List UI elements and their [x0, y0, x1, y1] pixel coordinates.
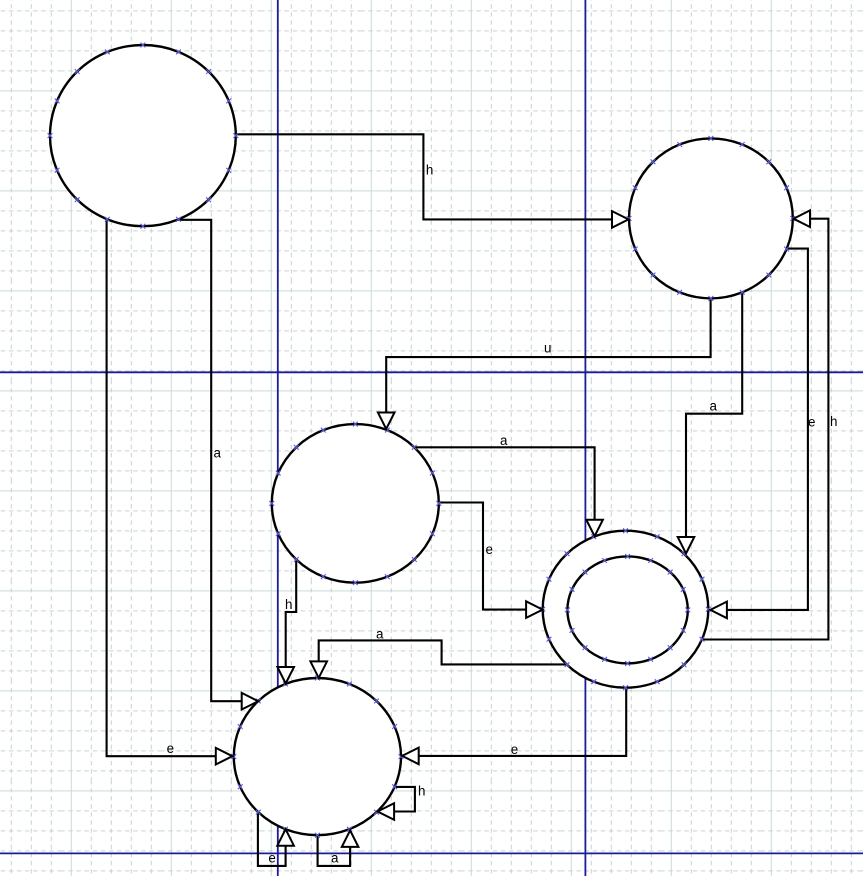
label h (A to B)	[426, 162, 433, 177]
wire: transition a B to D	[686, 292, 742, 537]
label u (B to C)	[544, 341, 551, 356]
svg-text:e: e	[486, 542, 493, 557]
label e (B to D)	[808, 415, 815, 430]
wire: transition u B to C	[386, 298, 710, 412]
arrowhead: transition e C to D	[526, 601, 543, 618]
state D inner circle	[565, 554, 690, 666]
svg-text:e: e	[808, 415, 815, 430]
arrowhead: transition a D to E	[310, 661, 327, 678]
label h (D to B)	[830, 414, 837, 429]
arrowhead: self-loop e on E	[277, 829, 294, 846]
page boundary horizontal line 1	[0, 371, 863, 373]
arrowhead: transition h C to E	[277, 667, 294, 684]
arrowhead: transition a B to D	[678, 537, 695, 554]
arrowhead: self-loop h on E	[378, 803, 395, 820]
label a (self-loop)	[331, 851, 339, 866]
wire: transition a C to D	[414, 447, 594, 519]
wire: transition h D to B (right side)	[703, 219, 829, 640]
label h (self-loop)	[418, 784, 425, 799]
svg-text:e: e	[268, 851, 275, 866]
arrowhead: transition h A to B	[612, 211, 629, 228]
label e (D to E)	[511, 742, 518, 757]
svg-text:a: a	[331, 851, 339, 866]
svg-text:e: e	[511, 742, 518, 757]
state A (top-left)	[48, 43, 239, 229]
svg-text:a: a	[376, 626, 384, 641]
wire: self-loop a on E	[318, 835, 351, 866]
svg-text:e: e	[167, 741, 174, 756]
label a (C to D)	[500, 433, 508, 448]
state E (bottom)	[231, 676, 403, 838]
label a (D to E)	[376, 626, 384, 641]
svg-text:h: h	[830, 414, 837, 429]
arrowhead: transition e B to D (right side)	[710, 602, 727, 619]
state D outer (accept, double circle)	[540, 528, 710, 690]
wire: transition a A to E	[178, 220, 241, 701]
label e (C to D)	[486, 542, 493, 557]
label a (A to E)	[214, 446, 222, 461]
wire: self-loop h on E	[395, 787, 415, 812]
wire: transition h A to B	[236, 134, 612, 219]
svg-text:a: a	[500, 433, 508, 448]
wire: self-loop e on E	[258, 812, 286, 866]
svg-text:a: a	[710, 399, 718, 414]
svg-text:a: a	[214, 446, 222, 461]
arrowhead: self-loop a on E	[342, 830, 359, 847]
arrowhead: transition a C to D	[586, 520, 603, 537]
wire: transition h C to E	[286, 560, 297, 667]
state C (middle)	[269, 422, 441, 585]
state B (top-right)	[627, 136, 796, 301]
label h (C to E)	[285, 597, 292, 612]
arrowhead: transition u B to C	[378, 413, 395, 430]
wire: transition e D to E	[419, 688, 626, 756]
arrowhead: transition e A to E	[216, 748, 233, 765]
page boundary horizontal line 2	[0, 852, 863, 854]
label e (A to E)	[167, 741, 174, 756]
wire: transition e C to D	[439, 503, 526, 610]
label e (self-loop)	[268, 851, 275, 866]
svg-text:h: h	[418, 784, 425, 799]
arrowhead: transition h D to B (right side)	[794, 210, 811, 227]
wire: transition e A to E	[107, 220, 216, 757]
svg-text:h: h	[426, 162, 433, 177]
wire: transition e B to D (right side)	[727, 249, 808, 610]
page boundary vertical line 1	[277, 0, 279, 876]
svg-text:u: u	[544, 341, 551, 356]
arrowhead: transition a A to E	[242, 693, 259, 710]
wire: transition a D to E	[319, 640, 566, 664]
arrowhead: transition e D to E	[402, 748, 419, 765]
svg-text:h: h	[285, 597, 292, 612]
page boundary vertical line 2	[584, 0, 586, 876]
label a (B to D)	[710, 399, 718, 414]
